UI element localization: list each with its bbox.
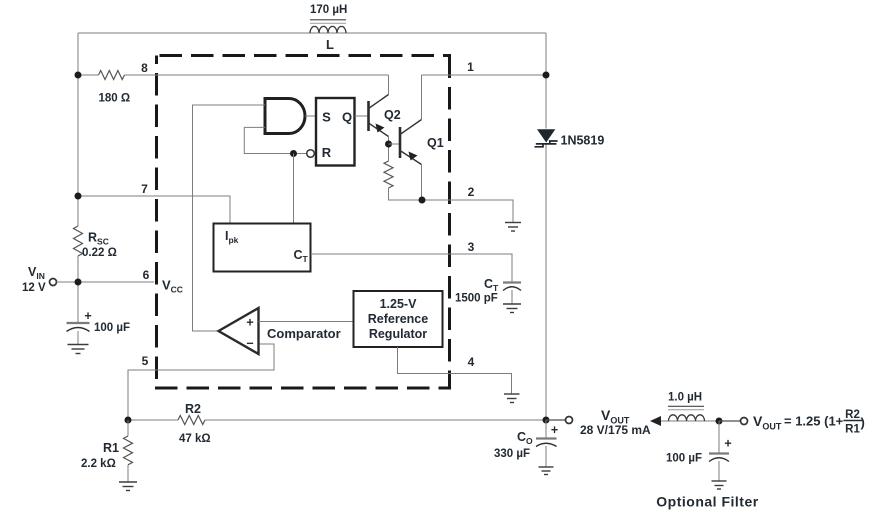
- svg-text:6: 6: [143, 268, 150, 282]
- diode 1N5819: [535, 129, 605, 147]
- resistor Q2 emitter: [384, 161, 393, 188]
- wire: pin 6 / VIN net: [57, 281, 155, 283]
- svg-text:100 µF: 100 µF: [666, 453, 702, 465]
- capacitor 100 uF input: [67, 309, 131, 345]
- inductor L 170 uH: [310, 4, 347, 52]
- svg-text:+: +: [551, 423, 558, 437]
- svg-text:Comparator: Comparator: [267, 326, 341, 341]
- wire: pin 1 net from Q1 collector: [422, 74, 547, 76]
- svg-text:12 V: 12 V: [22, 282, 46, 294]
- AND gate U1: [265, 99, 305, 134]
- dashed IC boundary box: [155, 56, 451, 389]
- wire: junction to filter terminal: [719, 420, 740, 422]
- node: junction R1/R2: [125, 417, 132, 424]
- wire: left input rail vertical: [77, 33, 79, 323]
- svg-text:2.2 kΩ: 2.2 kΩ: [81, 458, 116, 470]
- wire: pin 8 net: [78, 74, 389, 76]
- VOUT formula: [753, 409, 865, 436]
- svg-text:180 Ω: 180 Ω: [99, 93, 131, 105]
- svg-text:R: R: [322, 145, 332, 160]
- svg-text:L: L: [326, 37, 334, 52]
- wire: junction to Q1 base: [389, 143, 401, 145]
- terminal filtered VOUT: [741, 418, 748, 425]
- node: junction pin1/right rail: [543, 72, 550, 79]
- svg-text:RSC: RSC: [88, 231, 109, 247]
- wire: right output rail vertical: [545, 33, 547, 420]
- transistor Q1: [400, 75, 444, 200]
- node: filter cap junction: [716, 418, 723, 425]
- inductor 1.0 uH: [668, 392, 705, 422]
- wire: AND gate output to latch S: [305, 115, 316, 117]
- resistor 180 ohm on pin 8: [99, 71, 131, 105]
- ground: filter cap: [712, 481, 727, 489]
- node: Q2 emitter / Q1 base junction: [385, 141, 392, 148]
- svg-text:+: +: [84, 309, 91, 323]
- wire: junction to output terminal: [546, 419, 566, 421]
- svg-text:VCC: VCC: [162, 278, 183, 295]
- svg-text:Optional Filter: Optional Filter: [656, 494, 758, 510]
- node: output junction on right rail: [543, 417, 550, 424]
- svg-text:VOUT: VOUT: [753, 413, 782, 432]
- capacitor CT 1500 pF: [455, 277, 521, 305]
- svg-text:R1: R1: [845, 424, 860, 436]
- svg-text:7: 7: [141, 182, 148, 196]
- svg-text:): ): [861, 415, 865, 430]
- wire: pin 3 net from CT output: [311, 254, 513, 283]
- svg-text:1: 1: [467, 60, 474, 74]
- wire: top rail from left rail to right rail: [78, 32, 546, 34]
- svg-text:47 kΩ: 47 kΩ: [179, 433, 211, 445]
- ground: pin 2: [505, 223, 521, 232]
- wire: latch Q to Q2 base: [355, 115, 369, 117]
- svg-text:330 µF: 330 µF: [494, 448, 530, 460]
- transistor Q2: [369, 75, 401, 161]
- ground: R1: [119, 482, 137, 491]
- svg-text:Regulator: Regulator: [369, 327, 427, 341]
- capacitor 100 uF filter: [666, 421, 732, 481]
- capacitor CO 330 uF: [494, 420, 558, 467]
- ground: CO: [539, 467, 554, 475]
- svg-text:Q: Q: [342, 110, 352, 125]
- svg-text:100 µF: 100 µF: [94, 322, 130, 334]
- svg-text:4: 4: [468, 355, 475, 369]
- comparator U3: [219, 308, 341, 354]
- svg-text:1.0 µH: 1.0 µH: [668, 392, 702, 404]
- ground: CT cap: [503, 304, 521, 313]
- 1.25-V reference regulator block: [354, 291, 443, 347]
- svg-text:S: S: [322, 110, 331, 125]
- svg-text:CT: CT: [294, 248, 309, 264]
- svg-text:5: 5: [142, 354, 149, 368]
- node: junction pin7/left rail: [75, 193, 82, 200]
- svg-text:+: +: [724, 437, 731, 451]
- svg-text:170 µH: 170 µH: [310, 4, 347, 16]
- wire: output feedback bottom rail: [128, 419, 546, 421]
- resistor RSC 0.22 ohm: [74, 226, 117, 259]
- wire: AND lower input loop to latch R: [244, 127, 306, 153]
- svg-text:3: 3: [468, 240, 475, 254]
- svg-text:R2: R2: [185, 402, 201, 416]
- svg-text:1.25-V: 1.25-V: [380, 297, 417, 311]
- svg-text:CO: CO: [517, 430, 533, 446]
- node: junction pin8/left rail: [75, 72, 82, 79]
- svg-text:1N5819: 1N5819: [561, 134, 605, 148]
- wire: pin 7 net: [78, 196, 230, 224]
- wire: resistor to pin 2 net: [389, 188, 514, 223]
- wire: filter inductor net: [661, 420, 719, 422]
- svg-text:−: −: [246, 337, 253, 351]
- arrow to optional filter: [650, 416, 661, 426]
- wire: pin 5 net from comparator inverting input: [128, 344, 274, 420]
- svg-text:R2: R2: [845, 409, 860, 421]
- node: junction VIN/left rail: [75, 279, 82, 286]
- svg-text:8: 8: [141, 61, 148, 75]
- svg-text:= 1.25 (1+: = 1.25 (1+: [784, 414, 844, 429]
- wire: R junction down to Ipk block: [293, 154, 295, 224]
- resistor R1 2.2k: [81, 420, 133, 482]
- svg-text:R1: R1: [103, 441, 119, 455]
- Ipk block: [214, 224, 311, 272]
- svg-text:0.22 Ω: 0.22 Ω: [82, 247, 117, 259]
- svg-text:VIN: VIN: [28, 265, 45, 281]
- node: junction on R wire: [290, 150, 297, 157]
- ground: pin 4: [504, 394, 520, 403]
- svg-text:28 V/175 mA: 28 V/175 mA: [580, 423, 651, 437]
- inverter bubble on R input: [307, 150, 315, 158]
- svg-text:Ipk: Ipk: [225, 229, 239, 245]
- terminal VOUT: [566, 417, 573, 424]
- SR latch U2: [316, 98, 355, 166]
- terminal VIN: [50, 279, 57, 286]
- wire: pin 4 net from regulator: [398, 347, 512, 394]
- resistor R2 47k: [178, 402, 211, 445]
- node: Q1 emitter junction on pin 2 wire: [419, 197, 426, 204]
- svg-text:1500 pF: 1500 pF: [455, 293, 498, 305]
- wire: comparator output feedback to AND input: [193, 105, 266, 331]
- svg-text:2: 2: [468, 185, 475, 199]
- ground: input cap: [68, 345, 89, 354]
- svg-text:Reference: Reference: [368, 312, 428, 326]
- svg-text:Q1: Q1: [427, 136, 444, 150]
- svg-text:+: +: [246, 316, 253, 330]
- svg-text:CT: CT: [484, 277, 499, 293]
- svg-text:Q2: Q2: [384, 108, 401, 122]
- wire: comparator + input from reference: [259, 321, 354, 323]
